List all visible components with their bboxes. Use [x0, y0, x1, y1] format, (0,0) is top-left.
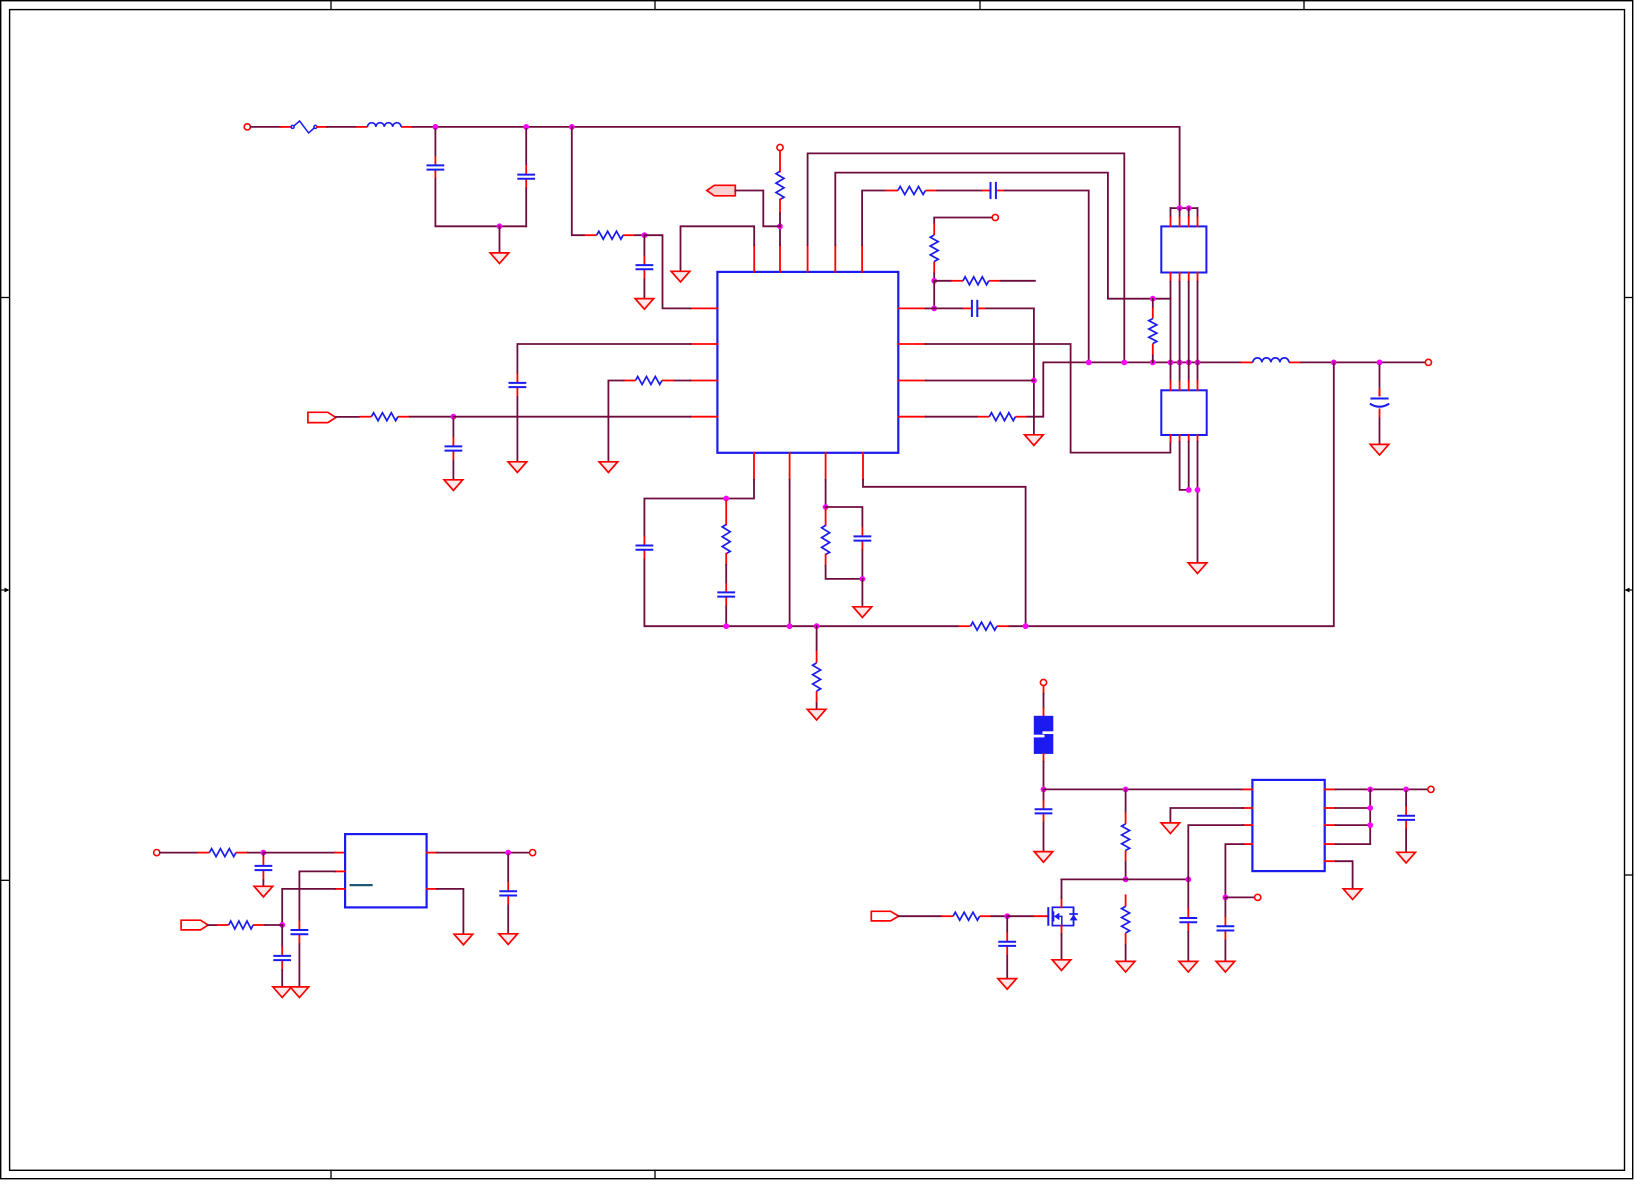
ground G1 [490, 253, 509, 264]
wire U1 pinR4 net a [926, 416, 978, 418]
wire U1 pin T2 net [779, 226, 781, 245]
wire conn top bar [1171, 207, 1198, 209]
capacitor C17 [1179, 909, 1197, 932]
wire U2 pinL2 net [299, 871, 335, 920]
wire U3 pinR5 net [1336, 861, 1353, 889]
pin U3 right pin 4 [1325, 843, 1336, 845]
wire R4 to J7 [933, 274, 935, 281]
wire U1 pin T3 net [808, 153, 1125, 362]
capacitor C16 [1035, 800, 1053, 823]
ground G12 [273, 987, 292, 998]
wire U2 pinR2 net [437, 889, 464, 934]
ground G18 [998, 979, 1017, 990]
wire U3 pinR4 net [1336, 843, 1371, 845]
wire J24 to pinL1 [644, 235, 690, 308]
wire C18 lower [1006, 956, 1008, 979]
wire conn top pin wire 2 [1179, 208, 1181, 217]
wire U1 pin T1 net [681, 226, 755, 271]
wire R16 to J34 [265, 924, 282, 926]
wire J35 down [507, 855, 509, 882]
pin U3 left pin4 [1243, 843, 1252, 845]
frame tick right y=297.5 [1625, 297, 1634, 299]
wire C16 upper [1043, 791, 1045, 800]
wire C20 lower [1405, 830, 1407, 853]
pin U3 right pin 3 [1325, 824, 1336, 826]
terminal J-IN [244, 124, 250, 130]
wire T3 to corner [934, 218, 991, 224]
pin conn2 top pin 2 [1179, 381, 1181, 390]
wire J43 down [1405, 791, 1407, 806]
pin fuse right pin [317, 126, 327, 128]
wire J41 to T8 [1225, 896, 1254, 898]
junction J40 [1004, 913, 1010, 919]
junction J3 [569, 124, 575, 130]
wire U3 pinR3 net [1336, 824, 1371, 826]
junction J41 [1223, 895, 1229, 901]
pin conn top pin 3 [1188, 217, 1190, 226]
terminal T7 [1040, 679, 1046, 685]
wire J40 down [1006, 918, 1008, 932]
wire conn top pin wire 3 [1188, 208, 1190, 217]
pin R11 top lead [725, 501, 727, 525]
pin conn2 bottom pin 4 [1197, 435, 1199, 442]
resistor R2 [776, 171, 784, 199]
frame tick top x=980 [979, 1, 981, 10]
wire R7 top [1152, 299, 1154, 307]
capacitor C15 [499, 882, 517, 905]
junction J2 [523, 124, 529, 130]
resistor R13 [813, 651, 821, 703]
capacitor C4 [963, 300, 986, 317]
pin U2 left pin3 [335, 888, 345, 890]
pin conn bottom pin 4 [1197, 273, 1199, 282]
wire flag to J5 [735, 191, 780, 227]
pin U1 left pin 1 [690, 307, 717, 309]
capacitor C9 [636, 536, 654, 559]
junction J26 [723, 496, 729, 502]
wire U2 pinL3 net [282, 889, 335, 925]
junction J9 [1031, 378, 1037, 384]
pin conn top pin 2 [1179, 217, 1181, 226]
pin U2 right pin2 [427, 888, 437, 890]
junction J8 [931, 306, 937, 312]
wire C10 lower [725, 607, 727, 627]
resistor R3 [886, 187, 938, 195]
wire R18 to gnd [1125, 945, 1127, 962]
capacitor C7 [509, 374, 527, 397]
resistor R15 [197, 849, 248, 857]
junction J11 [1121, 360, 1127, 366]
wire R8 to J24 [635, 234, 644, 236]
ground G23 [1397, 852, 1416, 863]
pin conn2 bottom pin 3 [1188, 435, 1190, 442]
wire J25 to pinL4 [453, 416, 690, 418]
flag gate flag BR [871, 911, 898, 921]
pin conn2 bottom pin 1 [1170, 435, 1172, 442]
wire C1 upper [434, 129, 436, 156]
junction J17 [1331, 360, 1337, 366]
capacitor C14 [273, 947, 291, 970]
resistor R9 [624, 377, 674, 385]
junction J20 [1186, 205, 1192, 211]
ground G8 [853, 607, 872, 618]
capacitor C3 [982, 182, 1005, 199]
capacitor C13 [291, 921, 309, 944]
junction J31 [1023, 623, 1029, 629]
pin U1 top pin 5 [861, 245, 863, 272]
resistor R17 [1122, 812, 1130, 863]
capacitor C19 [1217, 917, 1235, 940]
resistor R10 [359, 413, 410, 421]
pin U1 bottom pin 4 [862, 453, 864, 480]
capacitor C18 [998, 932, 1016, 955]
pin U1 left pin 2 [690, 343, 717, 345]
ground G3 [1025, 435, 1044, 446]
ground G22 [1343, 889, 1362, 900]
pin conn2 bottom pin 2 [1179, 435, 1181, 442]
pin R12 top lead [825, 509, 827, 525]
wire top rail [413, 127, 1180, 208]
pin conn bottom pin 3 [1188, 273, 1190, 282]
capacitor C8 [445, 437, 463, 460]
pin U1 top pin 2 [779, 245, 781, 272]
ground G9 [807, 709, 826, 720]
terminal T2 [777, 144, 783, 150]
terminal T4 [1425, 359, 1431, 365]
resistor R8 [585, 231, 636, 239]
flag VOUT flag [308, 412, 336, 422]
pin U3 right pin 1 [1325, 788, 1336, 790]
wire Q1 drain up [1061, 879, 1063, 898]
ground G11 [290, 987, 309, 998]
wire J32 down [816, 626, 818, 651]
wire U3 pinR1 net [1336, 788, 1427, 790]
terminal T9 [1428, 786, 1434, 792]
wire C12 upper [262, 855, 264, 857]
frame tick left y=880.3 [1, 879, 10, 881]
ground G4 [1188, 563, 1207, 574]
wire J40 to gate [1007, 915, 1034, 917]
wire C6 lower [643, 279, 645, 299]
junction J18 [1377, 360, 1383, 366]
fuse F2 (PTC) [1033, 716, 1054, 754]
pin conn2 top pin 1 [1170, 381, 1172, 390]
wire conn mid wire 4 [1197, 282, 1199, 363]
wire conn2 pin4 down [1197, 442, 1199, 563]
pin U1 bottom pin 1 [753, 453, 755, 480]
frame tick right y=875 [1625, 874, 1634, 876]
wire conn mid wire 1 [1170, 282, 1172, 363]
capacitor C11 [854, 527, 872, 550]
resistor R14 [959, 622, 1009, 630]
pin U1 left pin 3 [690, 380, 717, 382]
capacitor C12 [255, 857, 273, 880]
wire pinB4 net [863, 480, 1026, 626]
wire J34 down [281, 925, 283, 947]
junction J6 [1150, 296, 1156, 302]
wire J39 down [1187, 881, 1189, 909]
junction J25 [451, 414, 457, 420]
junction J43 [1403, 787, 1409, 793]
pin U1 right pin 2 [898, 343, 925, 345]
pin U3 left pin1 [1243, 788, 1252, 790]
junction J4 [497, 223, 503, 229]
wire U1 pin T5 net a [862, 191, 885, 245]
ground G7 [444, 480, 463, 491]
wire R15 to J33 [248, 852, 264, 854]
pin U1 right pin 4 [898, 416, 925, 418]
wire conn mid wire 2 [1179, 282, 1181, 363]
resistor R16 [217, 921, 265, 929]
pin conn2 top pin 4 [1197, 381, 1199, 390]
frame tick top x=1304 [1303, 1, 1305, 10]
pin U2 left pin1 [335, 852, 345, 854]
junction J35 [505, 850, 511, 856]
wire pinR1 to J8 [926, 307, 935, 309]
wire conn2 pin2 down [1180, 442, 1189, 490]
pin conn top pin 4 [1197, 217, 1199, 226]
pin U3 right pin 2 [1325, 807, 1336, 809]
wire R12 to J30 [826, 566, 863, 579]
pin Q1 gate lead [1034, 915, 1048, 917]
wire conn2 pin3 down [1188, 442, 1190, 490]
pin conn top pin 1 [1170, 217, 1172, 226]
wire U1 pinL2 net [517, 344, 690, 374]
wire C19 lower [1224, 940, 1226, 961]
connector J20 upper [1161, 226, 1206, 272]
wire C2 upper [525, 129, 527, 165]
ground G20 [1161, 823, 1180, 834]
wire flag to R16 [208, 924, 217, 926]
pin Q1 source lead [1061, 926, 1063, 935]
wire pinB1 net [644, 480, 754, 536]
junction J1 [433, 124, 439, 130]
resistor R4 [930, 223, 938, 274]
wire U3 pinL4 net [1225, 844, 1243, 897]
wire bottom rail right [1009, 362, 1334, 626]
wire pinB3 net [825, 480, 827, 507]
wire R13 to gnd [816, 703, 818, 709]
pin U1 top pin 3 [807, 245, 809, 272]
ground G25 [635, 299, 654, 310]
terminal T8 [1255, 894, 1261, 900]
wire fuse to J36 [1043, 762, 1045, 790]
frame tick bottom x=655 [654, 1170, 656, 1178]
junction J32 [814, 623, 820, 629]
wire U2 pinR1 net [437, 852, 530, 854]
wire R7 bottom [1152, 356, 1154, 363]
wire C17 lower [1187, 932, 1189, 961]
capacitor C1 [427, 156, 445, 179]
resistor R19 [941, 912, 992, 920]
flag EN input [707, 185, 736, 196]
wire C9 lower [644, 560, 958, 627]
ground G24 [1370, 444, 1389, 455]
frame tick top x=655 [654, 1, 656, 10]
IC U2 internal mark [350, 884, 373, 886]
resistor R18 [1122, 894, 1130, 945]
frame center arrow right [1625, 588, 1633, 593]
pin conn bottom pin 1 [1170, 273, 1172, 282]
ground G5 [508, 462, 527, 473]
wire C8 lower [452, 461, 454, 480]
ground G6 [599, 462, 618, 473]
fuse F1 [291, 121, 317, 133]
connector J21 lower [1161, 390, 1206, 435]
wire flag to R10 [336, 416, 360, 418]
IC U1 [717, 272, 898, 453]
capacitor C6 [636, 256, 654, 279]
wire U1 pinR3 net [926, 380, 1034, 382]
pin Q1 drain lead [1061, 898, 1063, 907]
wire J29 to C11 [826, 507, 863, 527]
wire U3 pinL3 net [1188, 825, 1243, 879]
wire C2 lower [525, 189, 527, 227]
wire R11 to C10 [725, 565, 727, 583]
wire U3 pinL2 net [1170, 808, 1243, 823]
pin U2 left pin2 [335, 870, 345, 872]
IC U3 [1252, 780, 1324, 871]
junction J30 [860, 576, 866, 582]
transistor Q1 (N-MOSFET) [1048, 907, 1078, 926]
junction J45 [1367, 822, 1373, 828]
ground G15 [1034, 852, 1053, 863]
junction J22 [1186, 487, 1192, 493]
pin conn2 top pin 3 [1188, 381, 1190, 390]
wire R17 to J38 [1125, 862, 1127, 879]
pin U1 top pin 4 [834, 245, 836, 272]
junction J28 [787, 623, 793, 629]
junction J36 [1041, 787, 1047, 793]
ground G14 [454, 934, 473, 945]
wire U1 pinR4 net b [1027, 362, 1240, 416]
pin U1 bottom pin 3 [825, 453, 827, 480]
pin U1 top pin 1 [753, 245, 755, 272]
wire gnd stub G1 [499, 226, 501, 253]
wire U1 pin T4 net [835, 173, 1170, 299]
frame tick top x=331 [330, 1, 332, 10]
junction J38 [1123, 877, 1129, 883]
junction J7 [931, 278, 937, 284]
ground G2 [671, 271, 690, 282]
junction J29 [823, 504, 829, 510]
wire C14 lower [281, 970, 283, 987]
pin fuse left pin [281, 126, 291, 128]
resistor R5 [951, 277, 1001, 285]
resistor R7 [1149, 307, 1157, 356]
wire conn top pin wire 4 [1197, 208, 1199, 217]
junction J14 [1177, 360, 1183, 366]
pin R2 top lead [779, 151, 781, 172]
inductor L1 [356, 123, 414, 127]
terminal T5 [154, 850, 160, 856]
terminal T3 [992, 214, 998, 220]
wire J8 right [934, 307, 963, 309]
wire Q1 source down [1061, 934, 1063, 960]
wire C15 lower [507, 906, 509, 934]
capacitor C2 [517, 165, 535, 188]
ground G13 [499, 934, 518, 945]
wire J36 to U3 [1044, 788, 1244, 790]
capacitor C20 [1397, 806, 1415, 829]
junction J33 [261, 850, 267, 856]
wire R19 to J40 [992, 915, 1008, 917]
wire conn top pin wire 1 [1170, 208, 1172, 217]
terminal T6 [530, 850, 536, 856]
wire C7 lower [516, 397, 518, 462]
wire C16 lower [1043, 823, 1045, 852]
wire conn2 top wire 4 [1197, 362, 1199, 381]
resistor R6 [977, 413, 1027, 421]
wire U1 pinL3 net b [608, 381, 623, 462]
IC U2 [345, 834, 427, 907]
wire conn2 top wire 1 [1170, 362, 1172, 381]
wire C11 lower [861, 550, 863, 579]
wire J7 down [933, 281, 935, 309]
wire C8 upper [452, 419, 454, 437]
junction J24 [642, 232, 648, 238]
inductor L2 [1241, 358, 1301, 363]
pin U1 right pin 3 [898, 380, 925, 382]
pin R2 bottom lead [779, 200, 781, 214]
wire J41 down [1224, 899, 1226, 917]
wire J7 right [934, 280, 951, 282]
wire U3 pinR2 net [1336, 807, 1371, 809]
junction J23 [1195, 487, 1201, 493]
junction J12 [1150, 360, 1156, 366]
wire pinB2 net [789, 480, 791, 626]
wire R10 to J25 [410, 416, 454, 418]
wire C13 lower [298, 944, 300, 987]
ground G16 [1116, 961, 1135, 972]
pin U3 left pin2 [1243, 807, 1252, 809]
wire U1 pinR2 net [926, 344, 1171, 453]
pin U1 left pin 4 [690, 416, 717, 418]
pin U1 bottom pin 2 [789, 453, 791, 480]
wire input to fuse [251, 126, 282, 128]
wire J33 to U2 [263, 852, 335, 854]
wire fuse to inductor [327, 126, 356, 128]
wire C1 lower [435, 179, 526, 226]
pin fuse F2 bottom lead [1043, 754, 1045, 762]
junction J16 [1195, 360, 1201, 366]
ground G17 [1179, 961, 1198, 972]
pin conn bottom pin 2 [1179, 273, 1181, 282]
junction J5 [777, 223, 783, 229]
wire J3 drop [572, 127, 584, 235]
pin R11 bottom lead [725, 554, 727, 565]
wire C6 upper [643, 237, 645, 256]
pin fuse F2 top lead [1043, 708, 1045, 716]
wire conn2 top wire 2 [1179, 362, 1181, 381]
ground G19 [1052, 960, 1071, 971]
pin U2 right pin1 [427, 852, 437, 854]
capacitor C5 (polarized) [1370, 365, 1389, 445]
junction J39 [1185, 877, 1191, 883]
wire C12 lower [262, 880, 264, 886]
wire U1 pin T5 net c [1005, 191, 1089, 363]
frame center arrow left [2, 588, 10, 593]
junction J19 [1177, 205, 1183, 211]
junction J37 [1123, 787, 1129, 793]
pin T7 stub [1043, 686, 1045, 694]
ground G21 [1216, 961, 1235, 972]
pin U3 left pin3 [1243, 824, 1252, 826]
wire flag to R19 [899, 915, 941, 917]
wire T5 to R15 [160, 852, 198, 854]
resistor R11 [722, 525, 730, 554]
wire U1 pin T5 net b [937, 190, 981, 192]
